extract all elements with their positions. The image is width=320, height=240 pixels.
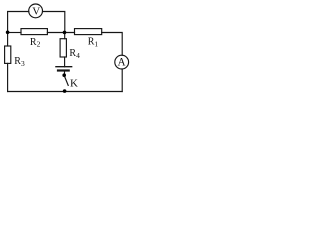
wire node A to R2 [8, 32, 21, 34]
svg-text:V: V [32, 5, 40, 17]
wire node A to R3 [7, 33, 9, 47]
svg-text:R1: R1 [88, 37, 99, 49]
wire R4 to battery [64, 57, 66, 67]
wire R1 to right corner [102, 33, 123, 56]
wire R3 to bottom corner [7, 63, 9, 91]
battery positive plate [56, 66, 72, 68]
junction node A [6, 31, 10, 35]
svg-text:R4: R4 [69, 48, 80, 60]
ammeter U-A [115, 55, 129, 69]
voltmeter U-V [29, 4, 43, 18]
wire voltmeter right lead [43, 12, 65, 33]
battery negative plate [58, 69, 69, 71]
resistor R2 [21, 29, 47, 35]
wire voltmeter left lead [8, 12, 29, 33]
wire ammeter to bottom corner [121, 69, 123, 92]
resistor R4 [60, 39, 66, 57]
resistor R3 [5, 46, 11, 63]
svg-text:R3: R3 [14, 56, 25, 68]
svg-text:R2: R2 [30, 37, 41, 49]
switch bottom terminal [63, 89, 67, 93]
wire battery to switch [64, 72, 66, 75]
wire R2 to node B [47, 32, 74, 34]
bottom wire [8, 91, 123, 93]
switch top terminal [62, 73, 66, 77]
svg-text:K: K [70, 77, 78, 89]
wire node B to R4 [64, 33, 66, 39]
resistor R1 [75, 29, 102, 35]
switch K blade [65, 77, 68, 85]
svg-text:A: A [117, 56, 125, 68]
junction node B [63, 31, 67, 35]
